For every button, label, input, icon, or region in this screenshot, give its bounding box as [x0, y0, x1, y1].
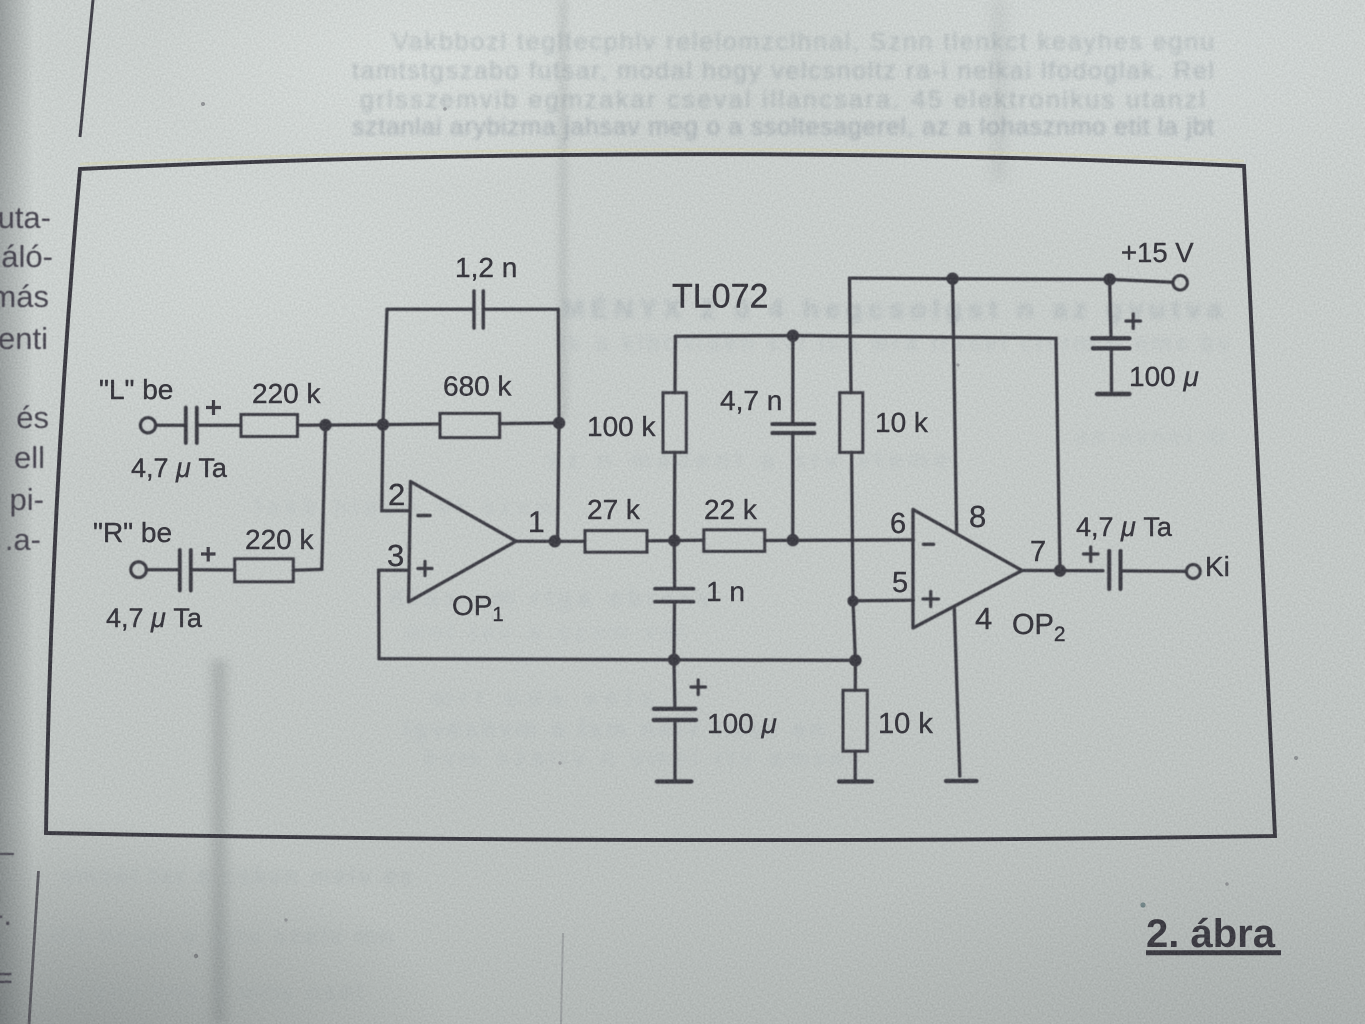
op-amp OP2 — [913, 509, 1022, 628]
resistor R4 27k — [585, 531, 647, 553]
wire node A to R3 — [383, 422, 440, 426]
caption underline — [1146, 950, 1281, 955]
node A junction dot — [377, 418, 389, 430]
wire C3 loop top right — [483, 308, 558, 311]
wire R5 to OP2 pin 6 — [765, 538, 914, 542]
capacitor C5 4,7n plates — [772, 424, 814, 433]
input terminal L — [140, 418, 155, 433]
wire C5 bottom — [791, 435, 794, 540]
paper speck 8 — [956, 363, 959, 366]
schematic frame border (yellow fringe) — [80, 149, 1244, 164]
ground symbol below C7 — [657, 779, 691, 783]
wire R8 to ground — [854, 751, 857, 779]
wire OP2 output pin 7 — [1022, 569, 1103, 573]
wire mix node down to C4 — [673, 541, 677, 588]
wire pin5 node to bias rail — [853, 601, 855, 660]
wire node A down to OP1 pin 2 — [382, 425, 410, 511]
plus sign C2 — [201, 547, 216, 562]
feedback line OP2 (top) — [675, 336, 1060, 571]
input terminal R — [131, 562, 147, 578]
output node OP1 junction dot — [549, 535, 561, 547]
paper grain texture — [0, 0, 1, 1]
column separator line bottom left — [29, 871, 39, 1024]
op-amp OP1 — [409, 482, 516, 602]
plus sign C6 — [1126, 314, 1141, 329]
paper speck 2 — [443, 107, 447, 111]
paper speck 4 — [284, 918, 287, 921]
resistor R8 10k (lower) — [843, 690, 867, 751]
junction dot rail / pin8 — [946, 273, 958, 285]
wire C6 to ground — [1110, 348, 1113, 390]
resistor R5 22k — [704, 530, 765, 552]
ground symbol below C6 — [1097, 392, 1129, 396]
wire C8 to Ki terminal — [1122, 569, 1186, 573]
wire R1 to node A — [298, 423, 384, 427]
wire R terminal to capacitor — [147, 568, 179, 571]
minus sign OP1 — [418, 514, 430, 517]
resistor R6 100k — [663, 393, 686, 453]
wire OP1 output — [516, 540, 585, 543]
capacitor C6 100u plates (supply) — [1092, 338, 1129, 348]
wire feedback node down to output node — [558, 423, 559, 541]
plus sign C7 — [691, 680, 706, 695]
plus sign C8 — [1084, 547, 1099, 562]
bias rail junction dot at C4/C7 — [668, 654, 680, 666]
junction dot C5 on pin6 wire — [787, 534, 799, 546]
junction dot bias rail end — [849, 654, 861, 666]
wire R3 to feedback node — [500, 421, 559, 425]
junction L/R mix — [319, 419, 331, 431]
minus sign OP2 — [923, 543, 933, 546]
wire node A up to C3 loop — [383, 309, 387, 424]
wire C2 to R2 — [192, 568, 235, 572]
plus sign OP2 — [923, 592, 939, 607]
column separator line top left — [80, 0, 93, 137]
wire C5 top — [791, 336, 794, 422]
paper speck 7 (teal) — [1140, 902, 1145, 907]
plus sign C1 — [206, 400, 221, 415]
wire R4 to mix node — [647, 539, 704, 543]
paper crease streak lower left — [206, 660, 232, 1024]
capacitor C2 4,7u Ta (R input) — [180, 550, 191, 591]
wire rail to C6 — [1110, 279, 1111, 336]
capacitor C8 4,7u Ta output plates — [1109, 551, 1120, 589]
wire R6 top to feedback line corner — [673, 336, 677, 392]
faint vertical band right of centre top — [986, 0, 1012, 180]
capacitor C7 100u plates — [654, 709, 696, 720]
feedback node junction dot — [553, 417, 565, 429]
wire L terminal to capacitor — [156, 424, 184, 427]
wire mix node up to R6 100k — [673, 452, 677, 540]
junction dot C5 top — [787, 330, 799, 342]
capacitor C1 4,7u Ta (L input) — [186, 408, 197, 444]
ground symbol below R8 — [839, 779, 872, 783]
resistor R2 220k (R) — [235, 559, 294, 582]
paper crease streak upper middle — [556, 0, 570, 420]
+15V rail wire — [850, 278, 1173, 282]
wire C4 down to bias rail — [672, 602, 676, 660]
wire R2 to junction — [293, 568, 322, 572]
paper speck 6 — [1225, 882, 1229, 886]
wire C3 loop right down — [557, 309, 561, 423]
wire pin5 node to OP2 — [853, 599, 913, 603]
ground symbol OP2 pin 4 — [946, 779, 977, 783]
junction dot output / feedback — [1054, 564, 1066, 576]
junction dot rail / C6 — [1103, 273, 1115, 285]
paper speck 3 — [194, 954, 198, 958]
wire R7 to pin5 node — [852, 452, 853, 601]
resistor R1 220k (L) — [241, 415, 298, 437]
schematic frame border — [46, 154, 1275, 840]
capacitor C4 1n plates — [655, 589, 694, 602]
wire rail down to R7 10k — [850, 278, 852, 393]
wire junction down to R channel — [322, 425, 326, 569]
wire C3 loop top left — [387, 308, 474, 311]
bias rail wire (bottom) — [379, 659, 855, 661]
wire C1 to R1 — [198, 424, 241, 427]
resistor R3 680k — [440, 413, 500, 437]
wire C7 to ground — [673, 721, 676, 779]
wire OP2 pin 4 to ground — [954, 608, 960, 777]
mix node junction dot — [668, 534, 680, 546]
paper speck 1 — [201, 102, 205, 106]
CIRCUIT-LAYER — [0, 200, 53, 995]
plus sign OP1 — [418, 562, 432, 576]
resistor R7 10k (upper) — [840, 393, 863, 453]
wire OP2 pin 8 — [953, 279, 957, 532]
paper speck 9 — [558, 761, 561, 764]
pin5 node junction dot — [847, 595, 858, 606]
capacitor C3 1,2n — [474, 291, 483, 328]
wire bias node down to R8 10k — [854, 660, 857, 690]
paper speck 5 — [1294, 756, 1298, 760]
wire bias rail to C7 — [672, 660, 676, 708]
faint column separator bottom centre — [561, 933, 563, 1024]
+15V terminal circle — [1173, 276, 1187, 290]
Ki terminal circle — [1186, 565, 1200, 579]
wire OP1 pin 3 to bias rail — [379, 570, 408, 659]
